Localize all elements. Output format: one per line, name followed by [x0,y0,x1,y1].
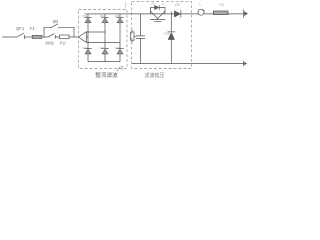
svg-text:FU: FU [60,40,66,45]
svg-text:7: 7 [121,66,124,72]
svg-text:QF1: QF1 [16,26,25,31]
svg-text:VD6: VD6 [115,46,121,50]
svg-text:VD5: VD5 [115,14,121,18]
svg-text:KM1: KM1 [46,40,55,45]
svg-text:FU: FU [220,3,225,7]
svg-text:F1: F1 [30,26,36,31]
svg-text:SB: SB [53,19,59,24]
svg-text:VD2: VD2 [82,46,88,50]
svg-text:VD: VD [151,1,155,5]
svg-text:VD4: VD4 [100,46,106,50]
svg-text:滤波稳压: 滤波稳压 [144,72,164,79]
svg-text:L: L [200,3,202,7]
svg-text:整流滤波: 整流滤波 [95,71,118,79]
svg-text:VD7: VD7 [175,3,181,7]
svg-text:VD3: VD3 [100,14,106,18]
svg-text:VD8: VD8 [164,32,170,36]
svg-text:VD1: VD1 [82,14,88,18]
